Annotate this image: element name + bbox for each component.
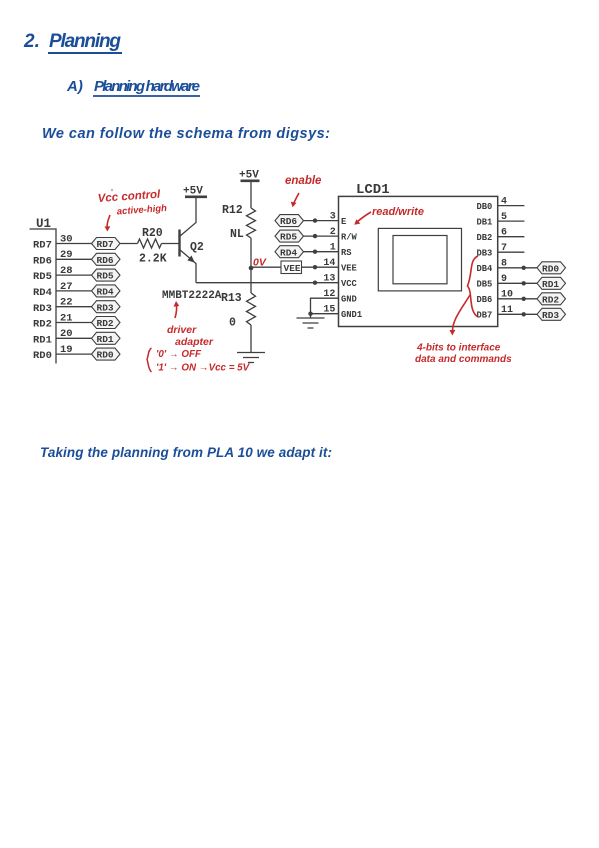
svg-text:RD1: RD1 [97,334,114,345]
net label RD4 (LCD side) [275,246,304,258]
svg-text:DB2: DB2 [477,233,493,243]
wire RD4 to LCD [304,251,339,253]
svg-text:VEE: VEE [341,264,357,274]
net label RD3 [92,301,121,313]
net label RD1 (right) [537,277,566,289]
net label RD2 [92,317,121,329]
svg-text:RD2: RD2 [542,294,559,305]
ground (LCD GND) [297,318,325,328]
SCHEMATIC 2 [0,0,1,1]
net label RD1 [92,332,121,344]
svg-text:RD5: RD5 [280,232,297,243]
svg-text:R12: R12 [222,204,243,217]
wire Q2 emitter to LCD VCC [196,282,339,284]
net label RD0 [92,348,121,360]
svg-text:RD1: RD1 [33,334,52,346]
svg-text:RD7: RD7 [97,239,114,250]
transistor Q2 MMBT2222A [178,230,180,257]
svg-text:adapter: adapter [175,336,214,348]
svg-text:data and commands: data and commands [415,354,512,365]
svg-text:enable: enable [285,175,322,187]
brace (4-bits) [468,256,479,317]
svg-text:Taking the planning from PLA 1: Taking the planning from PLA 10 we adapt… [40,445,332,460]
svg-text:RD3: RD3 [33,303,52,315]
svg-text:E: E [341,217,346,227]
svg-text:RD2: RD2 [33,319,52,331]
arrow (Vcc control) [107,215,110,229]
net label RD4 [92,285,121,297]
arrow (4-bits) [452,295,470,332]
ground (R13) [237,353,265,363]
svg-text:RS: RS [341,248,352,258]
LCD pins right side [477,196,538,320]
svg-text:RD4: RD4 [280,247,297,258]
wire R20 to Q2 base [162,243,179,245]
svg-text:RD3: RD3 [97,302,114,313]
net label RD2 (right) [537,293,566,305]
wire R13 to ground [250,325,252,353]
svg-text:R13: R13 [221,292,242,305]
svg-text:R20: R20 [142,227,163,240]
LCD pins left side [275,211,362,320]
brace (logic note) [147,348,152,372]
svg-text:'1' → ON →Vcc = 5V: '1' → ON →Vcc = 5V [156,363,251,374]
svg-text:DB1: DB1 [477,218,493,228]
svg-text:DB6: DB6 [477,295,493,305]
svg-text:Q2: Q2 [190,241,204,254]
ORANGE NOTE [0,0,1,1]
svg-text:We can follow the schema from: We can follow the schema from digsys: [42,126,330,142]
paper speck [111,189,113,191]
net label RD6 (LCD side) [275,215,304,227]
net label VEE [281,261,302,274]
svg-text:DB5: DB5 [477,280,493,290]
svg-text:4-bits to interface: 4-bits to interface [416,343,501,354]
svg-text:LCD1: LCD1 [356,182,390,198]
svg-text:RD0: RD0 [97,350,114,361]
svg-text:RD5: RD5 [97,271,114,282]
wire RD6 to LCD [304,220,339,222]
svg-text:DB4: DB4 [477,264,494,274]
svg-text:driver: driver [167,324,197,336]
HEADINGS [23,31,332,460]
svg-text:RD4: RD4 [33,287,52,299]
SCHEMATIC 1 [30,170,566,364]
svg-text:GND1: GND1 [341,310,362,320]
svg-text:DB7: DB7 [477,311,493,321]
svg-text:R/W: R/W [341,233,358,243]
svg-text:RD0: RD0 [542,263,559,274]
RED ANNOTATIONS [97,175,512,374]
net labels RD0-RD3 right column [537,262,566,321]
svg-text:RD4: RD4 [97,287,114,298]
net label RD6 [92,253,121,265]
svg-text:DB0: DB0 [477,202,493,212]
svg-text:RD7: RD7 [33,240,52,252]
svg-text:RD5: RD5 [33,271,52,283]
resistor R13 0 [247,293,256,325]
svg-text:RD6: RD6 [97,255,114,266]
wire node to VEE tag [251,266,281,268]
svg-text:RD1: RD1 [542,279,559,290]
arrow (enable) [293,193,299,205]
resistor R12 NL [247,208,256,238]
net label RD5 (LCD side) [275,230,304,242]
svg-text:VEE: VEE [284,263,301,274]
svg-text:0: 0 [229,317,236,330]
svg-text:GND: GND [341,295,357,305]
net label RD0 (right) [537,262,566,274]
svg-text:RD3: RD3 [542,310,559,321]
svg-text:VCC: VCC [341,279,358,289]
svg-text:read/write: read/write [372,206,424,218]
net label RD7 [92,238,121,250]
svg-text:0V: 0V [253,257,267,269]
svg-text:Planning: Planning [49,31,121,52]
wire RD5 to LCD [304,235,339,237]
svg-text:14: 14 [323,258,335,269]
net labels RD7-RD0 left column [92,238,121,361]
svg-text:'0' → OFF: '0' → OFF [156,349,202,360]
svg-text:Planning hardware: Planning hardware [94,78,200,95]
net label RD5 [92,269,121,281]
wire R12 to R13 [250,238,252,293]
svg-text:13: 13 [323,274,335,285]
svg-text:RD6: RD6 [280,216,297,227]
arrow (read/write) [357,212,372,223]
svg-text:RD2: RD2 [97,318,114,329]
svg-text:NL: NL [230,228,244,241]
wire GND pins to ground [311,298,339,318]
wire RD7 to R20 [120,243,138,245]
node VEE junction [249,266,254,271]
arrow (driver) [175,304,177,319]
net label RD3 (right) [537,308,566,320]
svg-text:DB3: DB3 [477,249,493,259]
svg-text:2.2K: 2.2K [139,253,167,266]
svg-text:A): A) [66,78,83,95]
svg-text:MMBT2222A: MMBT2222A [162,290,222,302]
svg-text:RD0: RD0 [33,350,52,362]
resistor R20 2.2K [138,239,162,248]
svg-text:2.: 2. [23,31,40,52]
svg-text:RD6: RD6 [33,255,52,267]
